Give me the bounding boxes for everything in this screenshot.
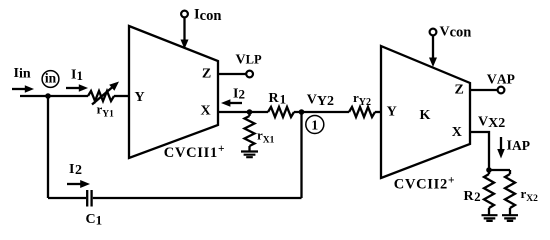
svg-text:I1: I1 — [71, 67, 83, 83]
wire to rX2 branch — [489, 169, 510, 171]
node in junction dot — [45, 93, 51, 99]
wire feedback left vertical — [47, 96, 49, 198]
ground rX1 — [241, 152, 258, 158]
arrow I2 into X1 — [221, 99, 242, 107]
svg-text:I2: I2 — [69, 162, 82, 178]
svg-text:Vcon: Vcon — [440, 25, 472, 41]
ground rX2 — [502, 215, 518, 221]
svg-text:K: K — [420, 108, 431, 123]
svg-text:I2: I2 — [233, 87, 245, 102]
svg-text:R1: R1 — [269, 91, 287, 107]
svg-text:IAP: IAP — [507, 138, 530, 154]
svg-text:Y: Y — [387, 105, 397, 120]
resistor rY1 zigzag — [88, 91, 114, 101]
Icon arrow into block — [181, 17, 189, 49]
wire rY1 to Y port — [114, 95, 129, 97]
node 1 circle — [306, 116, 324, 134]
resistor R1 zigzag — [268, 107, 294, 117]
wire X port to R1 — [218, 111, 268, 113]
arrow Iin — [12, 85, 34, 93]
junction dot R2 tap — [486, 167, 492, 173]
svg-text:VAP: VAP — [487, 72, 515, 88]
wire R1 to rY2 — [294, 111, 349, 113]
svg-text:X: X — [452, 125, 462, 140]
node in circle — [42, 71, 59, 88]
resistor rX2 — [505, 170, 515, 215]
wire Z2 to VAP — [470, 89, 498, 91]
svg-text:VY2: VY2 — [307, 93, 334, 110]
wire Z1 to VLP — [218, 73, 246, 75]
svg-text:VX2: VX2 — [478, 115, 505, 131]
wire rY2 to Y2 port — [375, 111, 381, 113]
resistor R2 — [484, 170, 494, 215]
svg-text:C1: C1 — [86, 212, 103, 227]
wire input main — [20, 95, 88, 97]
terminal Icon circle — [181, 11, 188, 18]
Vcon arrow into block — [429, 35, 437, 67]
svg-text:Iin: Iin — [14, 66, 31, 81]
ground R2 — [482, 215, 498, 221]
svg-text:in: in — [45, 71, 57, 86]
terminal VLP circle — [246, 71, 253, 78]
arrow I1 — [66, 84, 88, 92]
svg-text:Z: Z — [202, 67, 211, 82]
svg-text:VLP: VLP — [236, 52, 262, 67]
arrow IAP down — [497, 137, 505, 159]
wire right vertical up to node 1 — [300, 112, 302, 198]
svg-text:Icon: Icon — [194, 7, 221, 24]
svg-text:CVCII2+: CVCII2+ — [394, 175, 455, 193]
op-amp block CVCII2 trapezoid — [381, 46, 470, 178]
svg-text:R2: R2 — [464, 189, 481, 204]
wire X2 port down — [470, 132, 489, 170]
svg-text:Z: Z — [455, 82, 464, 97]
terminal Vcon circle — [430, 29, 437, 36]
svg-text:1: 1 — [311, 118, 318, 133]
wire C1 to right vertical — [93, 197, 302, 199]
svg-text:X: X — [200, 103, 210, 118]
resistor rX1 — [245, 112, 255, 151]
terminal VAP circle — [498, 87, 505, 94]
resistor rY2 zigzag — [349, 107, 375, 117]
svg-text:Y: Y — [134, 90, 144, 105]
junction dot rX1 tap — [247, 109, 253, 115]
op-amp block CVCII1 trapezoid — [129, 26, 218, 158]
capacitor C1 — [87, 190, 91, 207]
node 1 junction dot — [299, 109, 305, 115]
svg-text:CVCII1+: CVCII1+ — [164, 143, 225, 161]
rY1 variable arrow — [92, 82, 119, 105]
wire bottom left to C1 — [48, 197, 86, 199]
arrow I2 bottom — [67, 180, 90, 188]
